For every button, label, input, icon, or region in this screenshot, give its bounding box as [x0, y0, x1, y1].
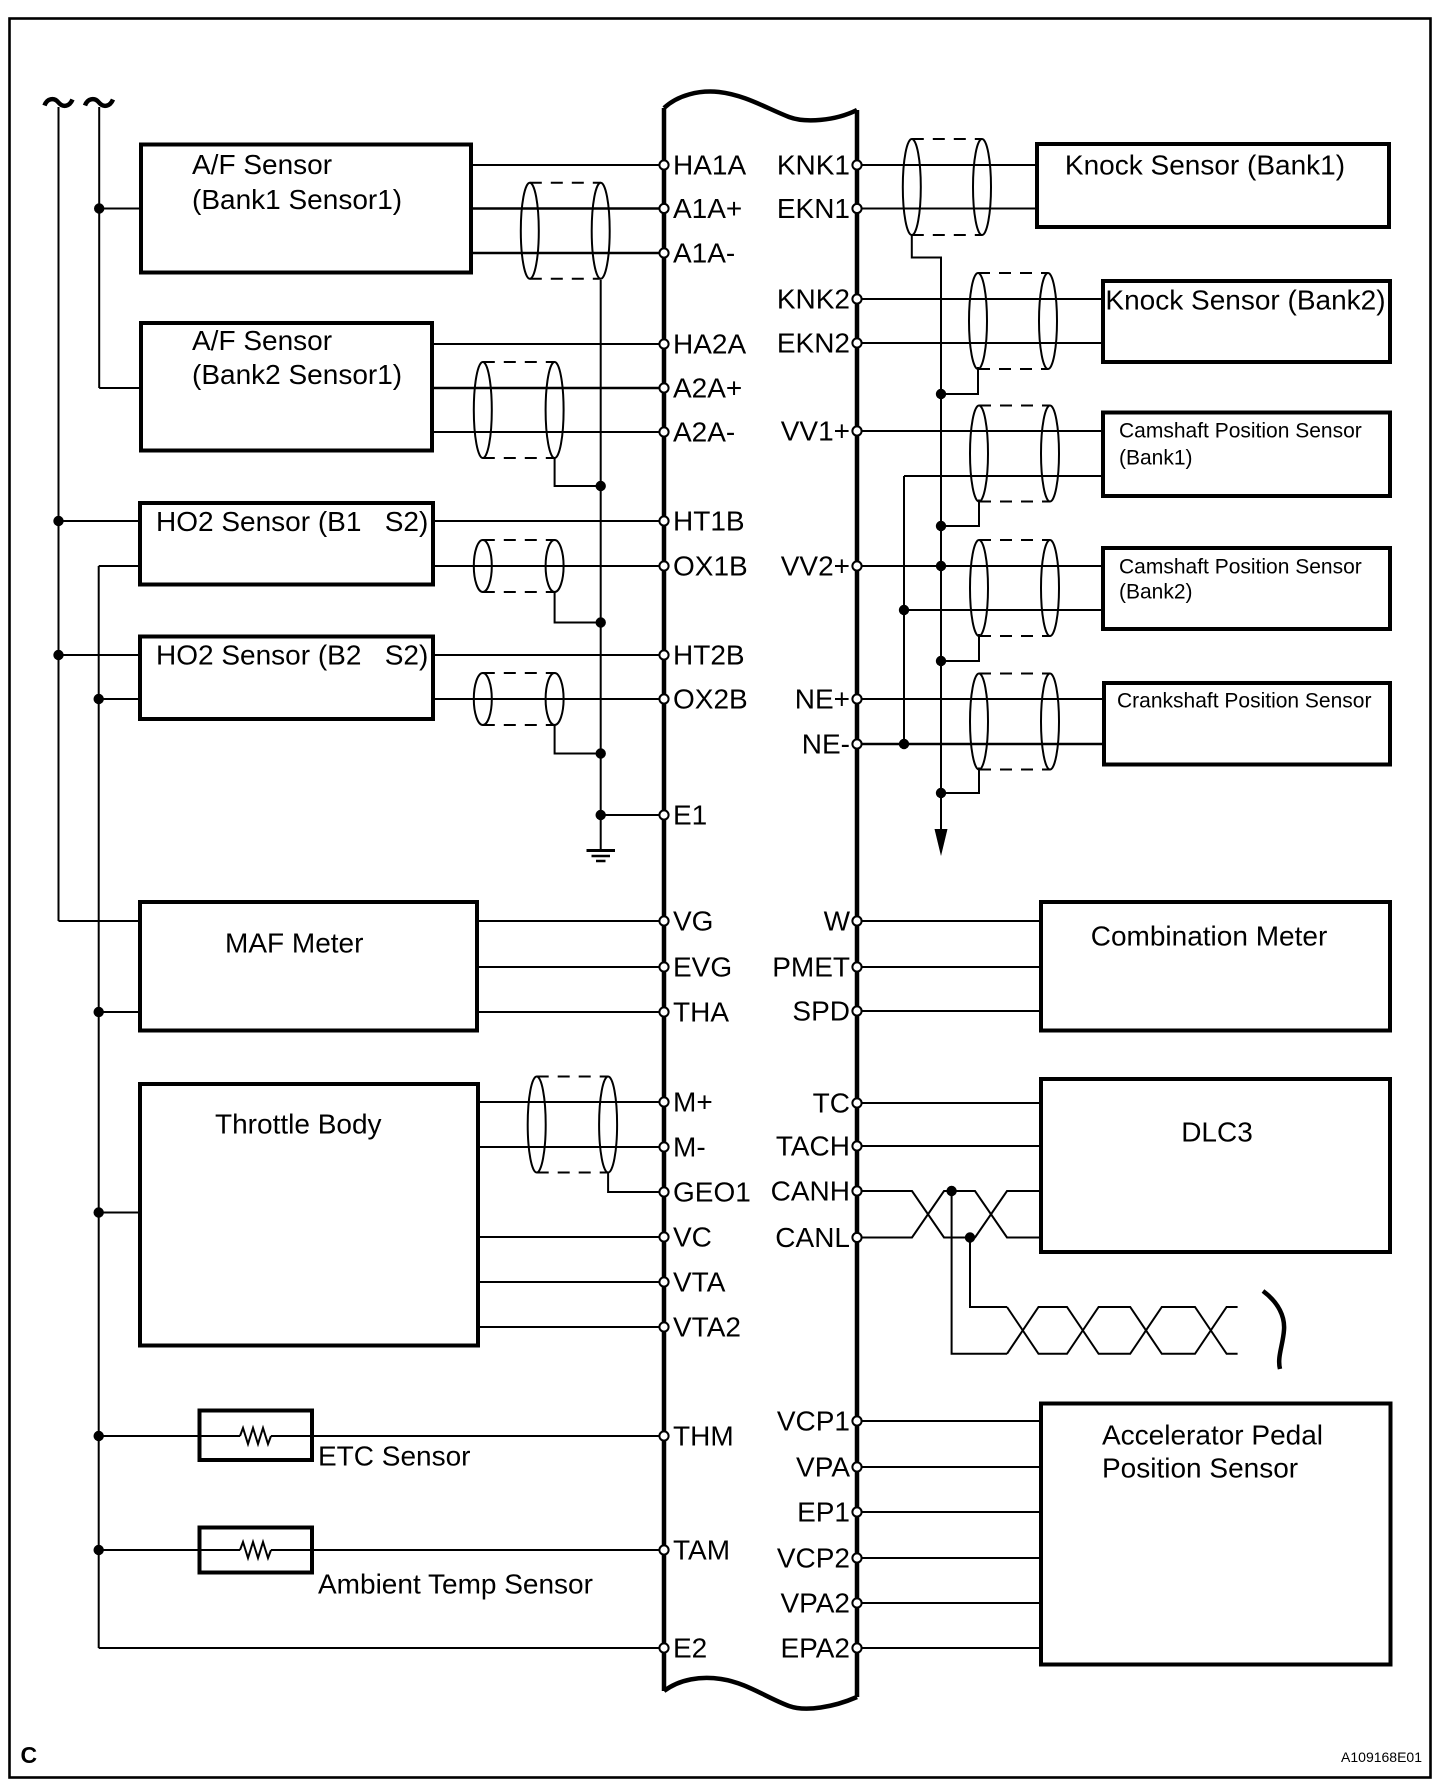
svg-text:M-: M- [673, 1132, 706, 1163]
svg-text:TC: TC [813, 1088, 850, 1119]
svg-text:OX2B: OX2B [673, 684, 748, 715]
svg-text:KNK1: KNK1 [777, 150, 850, 181]
box MAF Meter [140, 902, 477, 1031]
junction bus C / THM [94, 1431, 104, 1441]
pin VPA [796, 1452, 862, 1483]
svg-text:Combination Meter: Combination Meter [1091, 920, 1328, 951]
pin M+ [659, 1087, 712, 1118]
svg-text:A2A+: A2A+ [673, 373, 742, 404]
svg-text:MAF Meter: MAF Meter [225, 928, 363, 959]
pin NE- [802, 729, 862, 760]
wire EKN1 [857, 208, 1037, 210]
svg-text:A109168E01: A109168E01 [1341, 1749, 1422, 1765]
pin HA1A [659, 150, 746, 181]
junction bus A / HT1B [53, 516, 63, 526]
pin TACH [776, 1131, 862, 1162]
wire A2A- [432, 431, 664, 433]
svg-text:EPA2: EPA2 [780, 1633, 850, 1664]
svg-text:HT1B: HT1B [673, 506, 745, 537]
pin E2 [659, 1633, 707, 1664]
shield drain wire crank [944, 768, 979, 794]
resistor box Ambient Temp Sensor [200, 1528, 313, 1573]
wire OX1B [433, 565, 664, 567]
svg-text:EP1: EP1 [797, 1497, 850, 1528]
wire THA [477, 1011, 664, 1013]
svg-text:NE-: NE- [802, 729, 850, 760]
shielded cable cam1 [970, 406, 1059, 502]
junction CANL tap [965, 1232, 975, 1242]
pin EP1 [797, 1497, 862, 1528]
pin KNK2 [777, 284, 862, 315]
svg-text:Ambient Temp Sensor: Ambient Temp Sensor [318, 1569, 593, 1600]
svg-text:Accelerator Pedal: Accelerator Pedal [1102, 1420, 1323, 1451]
wire NE- [857, 743, 1104, 746]
wire SPD [857, 1010, 1041, 1012]
shielded cable A2A [474, 362, 564, 458]
svg-text:VV2+: VV2+ [781, 551, 850, 582]
svg-text:THA: THA [673, 997, 729, 1028]
svg-text:E2: E2 [673, 1633, 707, 1664]
box HO2 Sensor (B2 S2) [140, 637, 433, 720]
svg-text:M+: M+ [673, 1087, 713, 1118]
svg-text:DLC3: DLC3 [1181, 1117, 1253, 1148]
pin HT2B [659, 640, 744, 671]
svg-text:A2A-: A2A- [673, 417, 735, 448]
pin CANH [771, 1176, 862, 1207]
box Crankshaft Position Sensor [1104, 683, 1390, 765]
junction bus B / A-F1 [94, 203, 104, 213]
wire THM [99, 1435, 240, 1437]
junction bus A / HT2B [53, 650, 63, 660]
wire VV1+ [857, 430, 1103, 432]
CAN bus twisted pair lower wire [1007, 1307, 1238, 1354]
svg-text:HO2 Sensor (B2 S2): HO2 Sensor (B2 S2) [156, 640, 428, 671]
svg-text:EVG: EVG [673, 952, 732, 983]
shield drain wire M motor [608, 1173, 664, 1193]
knock/cam shield drain bus [912, 235, 941, 843]
svg-text:EKN1: EKN1 [777, 193, 850, 224]
shielded cable A1A [521, 183, 610, 279]
box Knock Sensor (Bank1) [1037, 144, 1389, 227]
svg-text:Knock Sensor (Bank2): Knock Sensor (Bank2) [1105, 285, 1385, 316]
CAN bus drop wire 1 [952, 1191, 1007, 1354]
svg-text:C: C [21, 1742, 38, 1768]
svg-text:TACH: TACH [776, 1131, 850, 1162]
svg-text:VG: VG [673, 906, 713, 937]
wire HT2B left stub [59, 654, 142, 656]
battery feed squiggle 1 [45, 99, 73, 106]
box A/F Sensor (Bank1 Sensor1) [141, 145, 471, 273]
wire EPA2 [857, 1647, 1041, 1649]
shield drain wire cam1 [944, 500, 979, 527]
ECM column bottom torn-edge wave [664, 1678, 857, 1709]
wire VPA [857, 1466, 1041, 1468]
pin SPD [792, 996, 861, 1027]
bus C stub to MAF Meter [99, 1011, 141, 1013]
junction return bus / cam2 [899, 605, 909, 615]
junction return bus / NE- [899, 739, 909, 749]
box DLC3 [1041, 1079, 1390, 1252]
wire HT1B [433, 520, 664, 522]
shield drain wire OX1B [555, 592, 598, 623]
pin OX2B [659, 684, 747, 715]
wire camshaft2 return [904, 609, 1103, 611]
svg-text:VTA2: VTA2 [673, 1312, 741, 1343]
wire E1 [601, 814, 664, 816]
pin OX1B [659, 551, 747, 582]
pin NE+ [795, 684, 862, 715]
svg-text:KNK2: KNK2 [777, 284, 850, 315]
svg-text:CANH: CANH [771, 1176, 850, 1207]
wire KNK2 [857, 298, 1103, 300]
pin W [824, 906, 862, 937]
svg-text:VPA: VPA [796, 1452, 850, 1483]
junction E1 bus / A2A shield [596, 481, 606, 491]
pin KNK1 [777, 150, 862, 181]
junction drain bus / cam1 shield [936, 521, 946, 531]
svg-text:VC: VC [673, 1222, 712, 1253]
shield drain wire OX2B [555, 725, 598, 754]
wire bus B stub to A/F Sensor Bank1 [99, 208, 141, 210]
battery feed squiggle 2 [85, 99, 113, 106]
svg-text:NE+: NE+ [795, 684, 850, 715]
junction bus C / OX2B [94, 694, 104, 704]
pin VPA2 [780, 1588, 861, 1619]
shield drain wire A2A [555, 458, 598, 486]
pin EPA2 [780, 1633, 861, 1664]
pin VTA [659, 1267, 725, 1298]
box Accelerator Pedal Position Sensor [1041, 1404, 1391, 1665]
bus C stub to Throttle Body [99, 1212, 141, 1214]
svg-text:CANL: CANL [775, 1222, 850, 1253]
battery feed wire bus A [58, 107, 60, 921]
svg-text:Crankshaft Position Sensor: Crankshaft Position Sensor [1117, 689, 1371, 712]
wire NE+ [857, 698, 1104, 700]
svg-text:EKN2: EKN2 [777, 328, 850, 359]
svg-text:HO2 Sensor (B1 S2): HO2 Sensor (B1 S2) [156, 506, 428, 537]
pin CANL [775, 1222, 861, 1253]
CAN bus drop wire 2 [970, 1238, 1007, 1308]
pin A1A- [659, 238, 735, 269]
svg-text:(Bank1): (Bank1) [1119, 446, 1193, 469]
wire A1A- [471, 252, 664, 255]
wire M- [478, 1146, 664, 1148]
box Combination Meter [1041, 902, 1390, 1031]
svg-text:A/F Sensor: A/F Sensor [192, 149, 332, 180]
wire camshaft1 return [904, 475, 1103, 477]
wire A2A+ [432, 387, 664, 390]
junction CANH tap [946, 1186, 956, 1196]
wire VCP2 [857, 1557, 1041, 1559]
wire VTA [478, 1281, 664, 1283]
pin VV2+ [781, 551, 862, 582]
svg-text:ETC Sensor: ETC Sensor [318, 1441, 471, 1472]
cam/crank return bus [903, 476, 905, 744]
box Camshaft Position Sensor (Bank2) [1103, 548, 1390, 629]
pin A2A- [659, 417, 735, 448]
pin A1A+ [659, 193, 742, 224]
svg-text:Knock Sensor (Bank1): Knock Sensor (Bank1) [1065, 150, 1345, 181]
wire CANL twisted segment [857, 1191, 1041, 1238]
shield drain bus to E1 [600, 280, 602, 815]
junction E1 bus / OX1B shield [596, 617, 606, 627]
pin VTA2 [659, 1312, 741, 1343]
wire M+ [478, 1101, 664, 1103]
pin VV1+ [781, 416, 862, 447]
ground symbol [587, 815, 616, 861]
wire HA1A [471, 164, 664, 166]
resistor box ETC Sensor [200, 1411, 313, 1461]
body ground arrow [935, 829, 948, 856]
pin EKN1 [777, 193, 862, 224]
wire VTA2 [478, 1326, 664, 1328]
wire EKN2 [857, 342, 1103, 344]
svg-text:OX1B: OX1B [673, 551, 748, 582]
pin VCP1 [777, 1406, 862, 1437]
wire VC [478, 1236, 664, 1238]
pin TAM [659, 1535, 730, 1566]
battery feed wire bus B [98, 107, 100, 388]
CAN bus continuation brace [1263, 1291, 1284, 1369]
wire E2 [99, 1647, 664, 1649]
ECM column top torn-edge wave [664, 92, 857, 121]
box Camshaft Position Sensor (Bank1) [1103, 413, 1390, 497]
pin THA [659, 997, 729, 1028]
pin EKN2 [777, 328, 862, 359]
svg-text:VPA2: VPA2 [780, 1588, 850, 1619]
box Throttle Body [140, 1084, 478, 1346]
wire TAM [99, 1549, 240, 1551]
wire CANH twisted segment [857, 1191, 1041, 1238]
svg-text:VTA: VTA [673, 1267, 726, 1298]
svg-text:SPD: SPD [792, 996, 850, 1027]
ECM connector column right edge [855, 110, 860, 1697]
shielded cable KNK1 [903, 139, 991, 235]
box HO2 Sensor (B1 S2) [140, 503, 433, 585]
svg-text:HT2B: HT2B [673, 640, 745, 671]
box A/F Sensor (Bank2 Sensor1) [141, 323, 432, 451]
wire HT2B [433, 654, 664, 656]
svg-text:Position Sensor: Position Sensor [1102, 1453, 1298, 1484]
pin VC [659, 1222, 712, 1253]
svg-text:A/F Sensor: A/F Sensor [192, 325, 332, 356]
svg-text:TAM: TAM [673, 1535, 730, 1566]
wire PMET [857, 966, 1041, 968]
svg-text:E1: E1 [673, 800, 707, 831]
CAN bus twisted pair upper wire [1007, 1307, 1238, 1354]
junction bus C / TAM [94, 1545, 104, 1555]
svg-text:HA1A: HA1A [673, 150, 746, 181]
bus C stub to HO2 Sensor B1 [99, 565, 141, 567]
wire TC [857, 1102, 1041, 1104]
svg-text:(Bank1 Sensor1): (Bank1 Sensor1) [192, 184, 402, 215]
shield drain wire KNK2 [944, 367, 978, 394]
pin HT1B [659, 506, 744, 537]
shielded cable crank [970, 674, 1059, 770]
junction E1 bus / E1 wire [596, 810, 606, 820]
pin VG [659, 906, 713, 937]
pin A2A+ [659, 373, 742, 404]
wire EVG [477, 966, 664, 968]
bus C stub to HO2 Sensor B2 [99, 698, 141, 700]
wire KNK1 [857, 164, 1037, 166]
resistor zigzag Ambient [240, 1542, 271, 1558]
shielded cable OX1B [474, 540, 564, 592]
svg-text:HA2A: HA2A [673, 329, 746, 360]
svg-text:A1A-: A1A- [673, 238, 735, 269]
svg-text:A1A+: A1A+ [673, 193, 742, 224]
svg-text:Throttle Body: Throttle Body [215, 1109, 382, 1140]
junction drain bus / VV2+ [936, 561, 946, 571]
pin TC [813, 1088, 862, 1119]
pin HA2A [659, 329, 746, 360]
svg-text:VV1+: VV1+ [781, 416, 850, 447]
wire VPA2 [857, 1602, 1041, 1604]
wire VCP1 [857, 1420, 1041, 1422]
junction E1 bus / OX2B shield [596, 748, 606, 758]
wire HT1B left stub [59, 520, 142, 522]
junction drain bus / cam2 shield [936, 656, 946, 666]
ECM connector column left edge [662, 108, 667, 1691]
svg-text:PMET: PMET [772, 952, 850, 983]
shield drain wire cam2 [944, 634, 979, 661]
pin EVG [659, 952, 732, 983]
junction drain bus / KNK2 shield [936, 389, 946, 399]
shielded cable KNK2 [969, 273, 1057, 369]
pin PMET [772, 952, 861, 983]
svg-text:(Bank2): (Bank2) [1119, 580, 1193, 603]
shielded cable OX2B [474, 673, 564, 725]
shielded cable cam2 [970, 540, 1059, 636]
wire EP1 [857, 1511, 1041, 1513]
wire W [857, 920, 1041, 922]
junction drain bus / crank shield [936, 788, 946, 798]
svg-text:THM: THM [673, 1421, 734, 1452]
wire VG [477, 920, 664, 922]
wire bus B to A/F Sensor Bank2 [99, 387, 141, 389]
svg-text:Camshaft Position Sensor: Camshaft Position Sensor [1119, 419, 1362, 442]
shielded cable M motor [528, 1077, 617, 1173]
box Knock Sensor (Bank2) [1103, 281, 1390, 362]
svg-text:(Bank2 Sensor1): (Bank2 Sensor1) [192, 359, 402, 390]
pin VCP2 [777, 1543, 862, 1574]
pin M- [659, 1132, 705, 1163]
wire VV2+ [857, 565, 1103, 567]
junction bus C / THA [94, 1007, 104, 1017]
wire TACH [857, 1145, 1041, 1147]
pin THM [659, 1421, 733, 1452]
pin GEO1 [659, 1177, 750, 1208]
svg-text:GEO1: GEO1 [673, 1177, 751, 1208]
wire HA2A [432, 343, 664, 345]
resistor zigzag ETC [240, 1428, 271, 1444]
svg-text:W: W [824, 906, 851, 937]
junction bus C / Throttle Body [94, 1207, 104, 1217]
svg-text:VCP1: VCP1 [777, 1406, 850, 1437]
svg-text:VCP2: VCP2 [777, 1543, 850, 1574]
wire OX2B [433, 698, 664, 700]
wire A1A+ [471, 207, 664, 210]
wire bus A to MAF Meter [59, 920, 142, 922]
pin E1 [659, 800, 707, 831]
svg-text:Camshaft Position Sensor: Camshaft Position Sensor [1119, 555, 1362, 578]
sensor ground bus C [98, 566, 100, 1648]
